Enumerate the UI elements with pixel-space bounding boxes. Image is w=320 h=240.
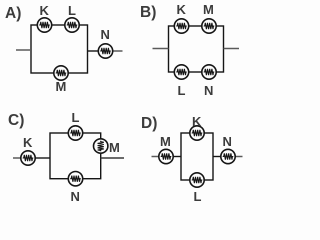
svg-text:M: M <box>56 79 67 94</box>
svg-text:K: K <box>23 135 33 150</box>
svg-text:N: N <box>71 189 80 204</box>
svg-text:M: M <box>109 140 120 155</box>
svg-text:L: L <box>178 83 186 98</box>
svg-text:B): B) <box>140 4 156 21</box>
svg-text:M: M <box>203 2 214 17</box>
svg-text:N: N <box>204 83 213 98</box>
svg-text:K: K <box>177 2 187 17</box>
svg-text:N: N <box>101 27 110 42</box>
svg-text:L: L <box>68 3 76 18</box>
svg-text:C): C) <box>8 112 24 129</box>
svg-text:K: K <box>192 114 202 129</box>
svg-text:L: L <box>72 110 80 125</box>
svg-text:D): D) <box>141 115 157 132</box>
svg-text:K: K <box>40 3 50 18</box>
svg-text:A): A) <box>5 5 21 22</box>
svg-text:M: M <box>160 134 171 149</box>
svg-text:L: L <box>194 189 202 204</box>
svg-text:N: N <box>223 134 232 149</box>
